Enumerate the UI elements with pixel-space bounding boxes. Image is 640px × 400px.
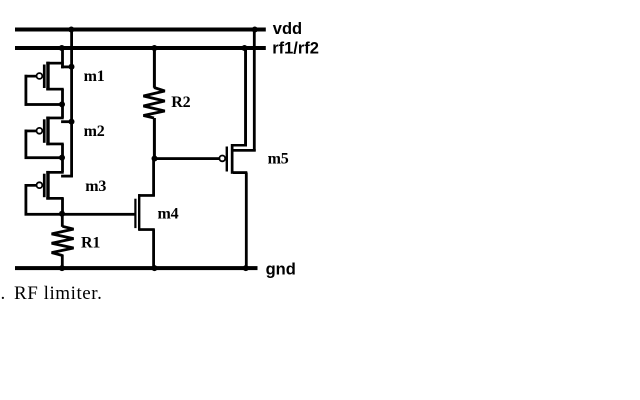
- m4 drain lead: [139, 194, 155, 197]
- resistor R2: [143, 45, 164, 162]
- wire rf rail to m5 source drop: [244, 48, 247, 147]
- R2 top lead: [153, 48, 156, 88]
- svg-text:RF limiter.: RF limiter.: [14, 283, 102, 304]
- junction R1 / gnd: [59, 265, 65, 271]
- transistor m4 (NMOS): [134, 159, 157, 272]
- m4 channel bar: [138, 194, 140, 231]
- svg-text:m5: m5: [268, 151, 289, 168]
- junction m2 drain / gate / m3 source: [59, 155, 65, 161]
- svg-text:R2: R2: [171, 94, 190, 111]
- wire m1 gate loop bottom: [25, 103, 63, 106]
- m1 drain lead: [46, 88, 63, 91]
- wire m3 source riser: [61, 158, 64, 173]
- junction vdd rail / m5 bulk drop: [252, 27, 258, 33]
- m2 source lead: [46, 117, 63, 120]
- m2 bulk stub: [61, 120, 73, 123]
- R1 bottom lead: [61, 255, 64, 269]
- m1 channel bar: [46, 62, 49, 91]
- wire m5 gate: [155, 157, 220, 160]
- wire m4 source riser: [152, 229, 155, 268]
- rf1/rf2 rail: [15, 46, 266, 50]
- svg-text:m4: m4: [158, 206, 179, 223]
- transistor m1 (PMOS, diode-connected): [25, 62, 75, 108]
- m1 bulk stub: [61, 66, 73, 69]
- svg-text:.: .: [1, 283, 6, 304]
- m1 gate bar: [43, 65, 46, 89]
- svg-text:m2: m2: [84, 123, 105, 140]
- resistor R1: [52, 214, 74, 271]
- junction m4 source / gnd: [152, 265, 158, 271]
- wire vdd right bulk drop: [253, 30, 256, 152]
- m4 source lead: [139, 228, 155, 231]
- m2 gate bubble: [37, 128, 43, 134]
- m5 gate bubble: [219, 156, 225, 162]
- wire m3 gate loop vertical: [25, 184, 28, 214]
- junction m1 bulk / vdd drop: [69, 64, 75, 70]
- wire vdd left bulk drop: [70, 30, 73, 178]
- m3 drain lead: [46, 197, 63, 200]
- wire m3 gate loop horizontal: [25, 184, 38, 187]
- m2 gate bar: [43, 119, 46, 143]
- R2 bottom lead: [153, 118, 156, 159]
- R1 zigzag: [52, 226, 74, 255]
- m3 channel bar: [46, 171, 49, 200]
- R1 top lead: [61, 214, 64, 227]
- m3 bulk stub: [61, 175, 73, 178]
- transistor m2 (PMOS, diode-connected): [25, 117, 75, 161]
- wire rf rail to m1 source riser: [61, 48, 64, 68]
- wire m1 gate loop vertical: [25, 75, 28, 106]
- junction R2 / m4 drain / m5 gate: [152, 156, 158, 162]
- svg-text:rf1/rf2: rf1/rf2: [272, 39, 319, 57]
- svg-text:m3: m3: [85, 178, 106, 195]
- transistor m5 (PMOS): [219, 27, 257, 272]
- m1 gate bubble: [37, 73, 43, 79]
- svg-text:m1: m1: [84, 68, 105, 85]
- m5 source lead: [233, 144, 247, 147]
- m3 gate bar: [43, 174, 46, 198]
- svg-text:vdd: vdd: [273, 20, 302, 38]
- junction vdd rail / bulk drop: [68, 27, 74, 33]
- wire m2 source riser: [61, 104, 64, 117]
- wire m5 drain riser: [245, 173, 248, 269]
- m5 channel bar: [231, 144, 234, 174]
- m4 gate bar: [134, 199, 136, 228]
- m1 source lead: [46, 62, 63, 65]
- wire m2 gate loop horizontal: [25, 130, 38, 133]
- junction m5 drain / gnd: [243, 265, 249, 271]
- junction rf rail / m1 source: [59, 45, 65, 51]
- junction m1 drain / gate / m2 source: [59, 101, 65, 107]
- m5 bulk stub: [231, 149, 256, 152]
- m3 source lead: [46, 171, 63, 174]
- m5 gate bar: [226, 147, 228, 172]
- wire m3 gate loop bottom + m4 gate wire: [25, 213, 137, 216]
- junction m3 drain / gate / R1 / m4 gate: [59, 211, 65, 217]
- junction m2 bulk / vdd drop: [69, 119, 75, 125]
- gnd rail: [15, 266, 258, 270]
- svg-text:R1: R1: [81, 235, 100, 252]
- wire m2 gate loop bottom: [25, 156, 63, 159]
- transistor m3 (PMOS, diode-connected): [25, 171, 73, 217]
- R2 zigzag: [143, 88, 164, 119]
- wire m1 gate loop horizontal: [25, 75, 38, 78]
- wire m1 drain riser: [61, 89, 64, 104]
- vdd rail: [15, 28, 266, 32]
- junction rf rail / R2: [151, 45, 157, 51]
- svg-text:gnd: gnd: [266, 260, 296, 278]
- m5 drain lead: [233, 171, 247, 174]
- wire m2 gate loop vertical: [25, 130, 28, 159]
- wire m2 drain riser: [61, 144, 64, 158]
- wire m4 drain riser: [152, 159, 155, 197]
- m2 drain lead: [46, 143, 63, 146]
- wire m3 drain riser: [61, 198, 64, 214]
- m3 gate bubble: [37, 182, 43, 188]
- junction rf rail / m5 source: [242, 45, 248, 51]
- m2 channel bar: [46, 117, 49, 146]
